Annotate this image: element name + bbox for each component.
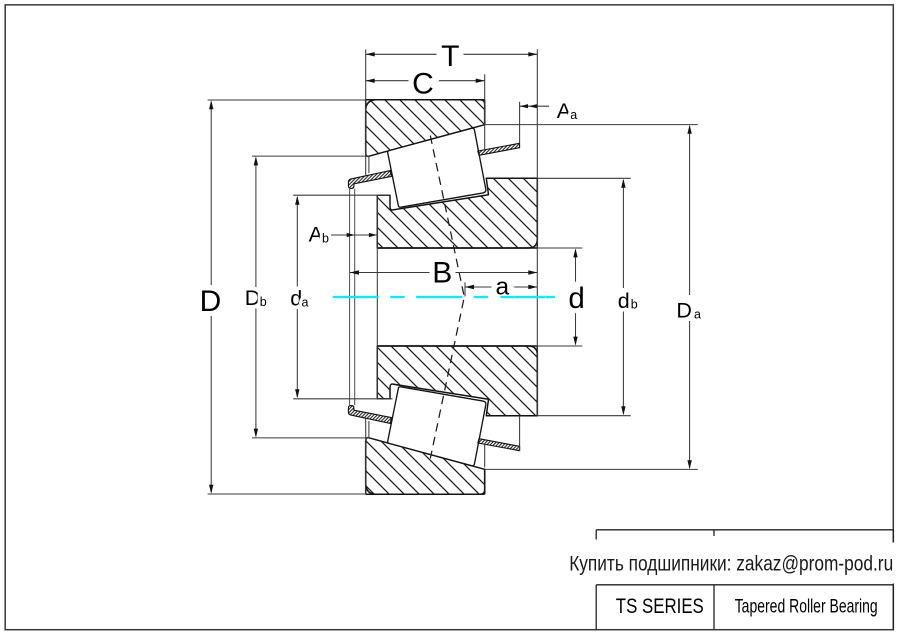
dimension a line bbox=[465, 286, 492, 288]
svg-text:b: b bbox=[322, 231, 329, 245]
extension line cup left face bottom bbox=[365, 419, 367, 495]
title block mid line bbox=[596, 584, 893, 586]
dimension Aa line bbox=[520, 105, 549, 107]
dimension B line bbox=[350, 272, 430, 274]
cone inner ring (bottom half) bbox=[377, 346, 537, 416]
svg-text:d: d bbox=[568, 282, 584, 315]
extension line Da bottom bbox=[485, 468, 698, 470]
extension line cup corner stub bottom bbox=[368, 421, 370, 438]
cup bottom edges square bbox=[366, 493, 485, 495]
dimension Da line bbox=[689, 126, 691, 295]
cup outer ring (top half) bbox=[366, 100, 485, 157]
svg-text:a: a bbox=[302, 295, 309, 309]
extension line cup right face bottom (C right, mirror) bbox=[484, 443, 486, 467]
svg-text:C: C bbox=[412, 68, 434, 101]
svg-text:a: a bbox=[694, 307, 701, 321]
svg-text:Купить подшипники: zakaz@prom-: Купить подшипники: zakaz@prom-pod.ru bbox=[569, 553, 893, 576]
svg-text:d: d bbox=[618, 289, 630, 313]
extension line da top bbox=[293, 194, 390, 196]
extension line cup right face (C right) bbox=[484, 74, 486, 150]
svg-text:B: B bbox=[432, 257, 452, 290]
extension tick for a bbox=[464, 282, 466, 296]
extension line cage rear end bottom bbox=[519, 416, 521, 451]
contact text white backdrop bbox=[561, 543, 898, 584]
extension line db bottom bbox=[537, 415, 630, 417]
tapered roller (bottom) bbox=[388, 387, 486, 466]
extension line cone back face (T/B/a right) bbox=[536, 49, 538, 415]
extension line cage rear end (A_a) bbox=[519, 102, 521, 144]
cup outer ring (bottom half) bbox=[366, 438, 485, 495]
dimension da line bbox=[296, 197, 298, 287]
cage rim edge lines (left) bbox=[349, 189, 351, 405]
extension line d bottom (bore) bbox=[537, 345, 582, 347]
extension line Db top bbox=[252, 155, 369, 157]
extension line D bottom bbox=[208, 493, 366, 495]
cup top edges square bbox=[366, 99, 485, 101]
extension line db top bbox=[537, 177, 630, 179]
dimension T line bbox=[366, 53, 437, 55]
svg-text:D: D bbox=[676, 299, 692, 323]
cage front strip (bottom-left) bbox=[348, 406, 391, 424]
dimension Db line bbox=[255, 158, 257, 287]
extension line cup left face (T/C left) bbox=[365, 49, 367, 175]
extension line Db bottom bbox=[252, 437, 369, 439]
dimension C line bbox=[366, 80, 409, 82]
svg-text:D: D bbox=[200, 285, 222, 318]
extension line Da top bbox=[485, 124, 698, 126]
dimension D line bbox=[210, 102, 212, 285]
svg-text:TS SERIES: TS SERIES bbox=[616, 594, 704, 618]
roller axis dashed line bbox=[430, 136, 464, 459]
tapered roller (top) bbox=[388, 128, 486, 207]
title block stubs bbox=[595, 530, 597, 540]
title block top line bbox=[596, 529, 893, 531]
dimension db line bbox=[622, 180, 624, 288]
cage rear strip (top-right) bbox=[478, 143, 520, 155]
extension line cone front face through bore bbox=[376, 195, 378, 399]
cage front strip (top-left) bbox=[348, 171, 391, 189]
extension line cup corner stub bbox=[368, 156, 370, 173]
svg-text:Tapered Roller Bearing: Tapered Roller Bearing bbox=[735, 595, 878, 617]
svg-text:T: T bbox=[441, 40, 459, 73]
extension line d top (bore) bbox=[537, 247, 582, 249]
cone inner ring (top half) bbox=[377, 178, 537, 248]
cone top edges square bbox=[536, 178, 538, 248]
cyan patch under label a bbox=[500, 296, 514, 298]
cyan centerline bbox=[333, 296, 555, 298]
dimension d line bbox=[575, 250, 577, 283]
cage rear strip (bottom-right) bbox=[478, 439, 520, 451]
svg-text:D: D bbox=[245, 286, 261, 310]
svg-text:b: b bbox=[260, 295, 267, 309]
svg-text:d: d bbox=[290, 287, 302, 311]
cone bottom edges square bbox=[536, 346, 538, 416]
dimension Ab line bbox=[331, 234, 377, 236]
extension line D top bbox=[208, 99, 366, 101]
svg-text:b: b bbox=[631, 298, 638, 312]
extension line da bottom bbox=[293, 398, 392, 400]
svg-text:a: a bbox=[570, 108, 577, 122]
title block verticals bbox=[595, 585, 597, 630]
